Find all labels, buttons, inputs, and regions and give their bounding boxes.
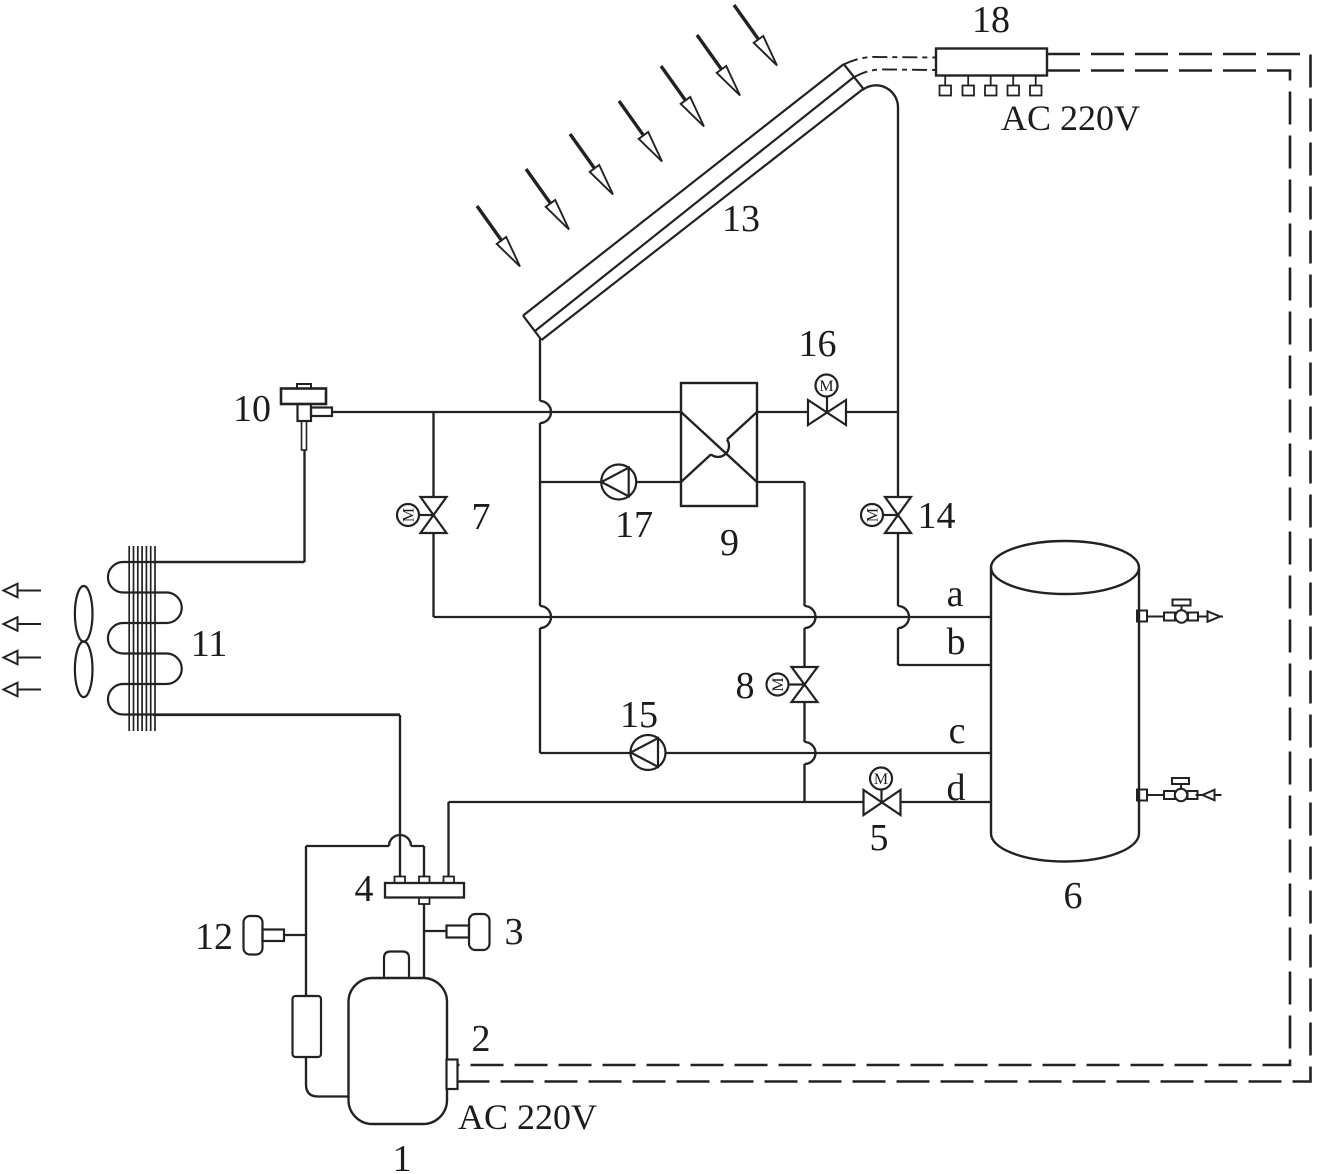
- wire four-way valve mid port loop y846 with hop over x400: [306, 835, 424, 877]
- sun ray arrows over collector 13: [477, 5, 777, 267]
- air arrow 4: [4, 683, 42, 697]
- svg-text:3: 3: [505, 911, 524, 953]
- solar collector 13: [523, 64, 863, 340]
- svg-text:15: 15: [620, 694, 658, 736]
- wire evaporator top row to expansion valve 10 bulb tube: [153, 450, 305, 562]
- sun arrow 2: [526, 169, 569, 230]
- wire four-way valve bottom port to compressor top: [423, 904, 425, 979]
- wire pump-17 suction line y482: [540, 481, 681, 483]
- svg-text:a: a: [947, 573, 964, 615]
- evaporator 11 fin lines: [129, 546, 155, 731]
- svg-text:4: 4: [355, 868, 374, 910]
- motorized valve 16 (horizontal): [808, 375, 846, 426]
- svg-text:14: 14: [918, 495, 956, 537]
- svg-text:8: 8: [736, 665, 755, 707]
- svg-text:1: 1: [393, 1138, 412, 1174]
- pressure gauge 3: [447, 914, 490, 950]
- motorized valve 7 (vertical): [397, 497, 447, 533]
- heat exchanger 9: [681, 383, 757, 506]
- svg-text:12: 12: [195, 916, 233, 958]
- sun arrow 4: [619, 101, 662, 162]
- accumulator / filter on suction line: [293, 996, 322, 1057]
- sun arrow 5: [661, 66, 704, 127]
- wire riser from four-way valve 4 to port-d line: [447, 802, 449, 877]
- wire liquid line y412 from expansion valve 10 to heat exchanger 9: [332, 411, 681, 413]
- svg-text:M: M: [819, 378, 833, 395]
- compressor power terminal 2: [447, 1060, 458, 1090]
- pressure gauge 12: [244, 916, 285, 955]
- air arrow 1: [4, 584, 42, 598]
- compressor 1 body: [349, 978, 448, 1124]
- svg-text:10: 10: [233, 388, 271, 430]
- wire port-c line y753 through pump 15: [540, 752, 991, 754]
- svg-text:M: M: [770, 677, 787, 691]
- hot water outlet spigot (top right of tank 6): [1137, 600, 1223, 623]
- svg-text:d: d: [947, 767, 966, 809]
- wire suction line x306 through accumulator to compressor 1: [306, 846, 350, 1097]
- fan blades beside evaporator 11: [75, 586, 93, 697]
- wire stub from gauge 12: [284, 934, 306, 936]
- svg-text:b: b: [947, 621, 966, 663]
- compressor 1 suction stub: [384, 952, 409, 980]
- pipe bend from collector 13 top to x898 riser: [863, 85, 899, 107]
- wire port-a line y617 to tank 6: [434, 616, 992, 618]
- svg-text:AC 220V: AC 220V: [458, 1097, 597, 1137]
- wire heat exchanger bottom outlet to valve 8 branch x804.5: [757, 482, 816, 802]
- dashed AC power rail outer from controller 18 to compressor terminal 2: [458, 54, 1311, 1082]
- wire valve-7 branch upper segment: [432, 412, 434, 497]
- svg-text:2: 2: [472, 1018, 491, 1060]
- wire heat exchanger 9 to valve 16 and to node x898: [757, 411, 898, 413]
- evaporator coil 11 serpentine: [108, 562, 400, 715]
- svg-text:9: 9: [720, 522, 739, 564]
- svg-text:M: M: [874, 771, 888, 788]
- svg-text:5: 5: [870, 817, 889, 859]
- svg-text:c: c: [949, 710, 966, 752]
- wire stub to gauge 3: [424, 930, 447, 932]
- svg-text:18: 18: [972, 0, 1010, 41]
- wire collector downcomer x540 with crossing hops: [540, 339, 551, 753]
- sun arrow 7: [734, 5, 777, 66]
- air arrow 2: [4, 617, 42, 631]
- svg-text:13: 13: [722, 198, 760, 240]
- air flow arrows at fan: [4, 584, 42, 697]
- pump 15: [631, 735, 666, 770]
- wire x898 riser from collector top through valve 14 to port b: [898, 107, 991, 665]
- svg-text:AC 220V: AC 220V: [1001, 98, 1140, 138]
- motorized valve 5 (horizontal): [864, 768, 901, 816]
- motorized valve 8 (vertical): [767, 667, 818, 702]
- thermostatic expansion valve 10: [281, 384, 332, 450]
- sensor capillary dash-dot lines from collector 13 to controller 18: [844, 57, 937, 78]
- controller 18 terminal stems and squares: [940, 76, 1042, 96]
- sun arrow 3: [570, 134, 613, 195]
- sun arrow 6: [697, 35, 740, 96]
- svg-text:11: 11: [191, 623, 228, 665]
- four-way reversing valve 4 manifold bar: [385, 877, 464, 905]
- wire valve-7 branch lower segment: [432, 533, 434, 617]
- svg-text:6: 6: [1064, 875, 1083, 917]
- dashed AC power rail inner: [458, 71, 1291, 1066]
- controller 18 box: [936, 49, 1047, 76]
- sun arrow 1: [477, 206, 520, 267]
- svg-text:M: M: [865, 508, 882, 522]
- motorized valve 14 (vertical): [861, 497, 911, 533]
- pump 17: [601, 465, 636, 500]
- cold water inlet spigot (bottom right of tank 6): [1137, 778, 1222, 801]
- svg-text:M: M: [401, 508, 418, 522]
- svg-text:16: 16: [799, 323, 837, 365]
- wire evaporator bottom row to four-way valve 4 left port: [153, 715, 400, 877]
- hot water tank 6: [991, 541, 1139, 862]
- air arrow 3: [4, 651, 42, 665]
- svg-text:17: 17: [615, 504, 653, 546]
- wire port-d line y802 through valve 5: [449, 801, 992, 803]
- svg-text:7: 7: [472, 496, 491, 538]
